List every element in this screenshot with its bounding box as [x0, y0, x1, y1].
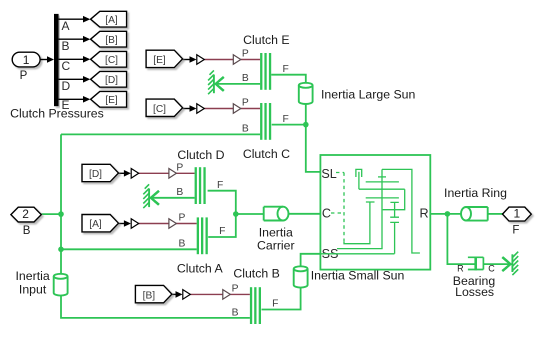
gear internal bottom links: [320, 249, 394, 254]
svg-text:P: P: [176, 163, 183, 174]
signal line from B to converter: [171, 291, 183, 298]
wire port2 to vertical bus: [41, 213, 61, 215]
svg-text:Losses: Losses: [455, 285, 494, 299]
svg-text:[A]: [A]: [105, 15, 118, 26]
PS line row B: [190, 293, 250, 295]
svg-text:1: 1: [23, 53, 30, 67]
wire left vertical bus: [60, 134, 62, 273]
from tag [B]: [135, 285, 172, 302]
svg-text:F: F: [219, 226, 225, 237]
svg-text:[B]: [B]: [143, 290, 156, 301]
goto tag [E]: [91, 91, 127, 107]
demux output line C: [59, 56, 91, 63]
svg-text:[D]: [D]: [105, 75, 118, 86]
clutch B: [250, 287, 261, 324]
from tag [E]: [146, 50, 183, 67]
signal line from E to converter: [183, 56, 197, 63]
inertia small sun: [294, 266, 308, 287]
PS line row D: [138, 172, 194, 174]
svg-text:D: D: [62, 79, 71, 93]
physical port 2 (B): [11, 207, 41, 222]
junction node R branch: [445, 211, 451, 217]
wire inertia carrier to C port: [289, 213, 321, 215]
demux output line A: [59, 16, 91, 23]
svg-text:A: A: [62, 19, 70, 33]
svg-text:C: C: [322, 207, 331, 221]
svg-text:F: F: [282, 64, 288, 75]
wire clutch C F line: [272, 124, 306, 126]
signal line from D to converter: [113, 170, 131, 177]
wire ground to clutch E B: [214, 83, 260, 85]
wire R junction to bearing losses: [447, 214, 475, 264]
wire inertia small sun to SS port: [301, 254, 321, 266]
svg-text:[A]: [A]: [89, 219, 102, 230]
wire clutch B F to inertia small sun: [262, 287, 301, 309]
PS line row E: [204, 59, 260, 61]
junction node port2: [58, 211, 64, 217]
svg-text:P: P: [20, 70, 28, 82]
svg-text:B: B: [242, 124, 249, 135]
wire R port to inertia ring: [430, 213, 461, 215]
svg-text:Clutch Pressures: Clutch Pressures: [10, 106, 104, 120]
wire clutch D F line: [208, 191, 236, 214]
bearing losses damper: [468, 257, 484, 271]
converter triangle B1: [183, 290, 191, 300]
gear internal left shaft: [344, 202, 375, 244]
PS line row C: [204, 108, 260, 110]
svg-text:2: 2: [22, 207, 29, 221]
svg-text:SL: SL: [321, 167, 336, 181]
demux bus selector bar: [54, 14, 59, 106]
goto tag [B]: [91, 31, 127, 47]
clutch C: [260, 103, 271, 140]
svg-text:Inertia Large Sun: Inertia Large Sun: [321, 87, 416, 101]
signal line port1 to demux: [40, 56, 54, 63]
planetary gear block: [320, 155, 430, 270]
inertia carrier: [264, 207, 289, 221]
converter triangle A1: [131, 219, 139, 229]
wire clutch A B line: [61, 248, 197, 250]
ground reference clutch E: [208, 70, 224, 94]
svg-text:Clutch E: Clutch E: [243, 33, 289, 47]
PS line row A: [138, 223, 196, 225]
junction node clutch A B: [58, 247, 64, 253]
converter triangle E1: [197, 55, 205, 65]
svg-text:F: F: [272, 299, 278, 310]
goto tag [D]: [91, 71, 127, 87]
converter triangle E2: [233, 55, 241, 65]
inertia large sun: [299, 83, 313, 104]
svg-text:C: C: [62, 59, 71, 73]
svg-text:[E]: [E]: [153, 55, 166, 66]
from tag [C]: [146, 99, 183, 116]
converter triangle C2: [233, 104, 241, 114]
svg-text:F: F: [217, 180, 223, 191]
inertia input: [54, 274, 68, 296]
svg-text:P: P: [178, 213, 185, 224]
physical port 1 (F): [503, 207, 532, 221]
svg-text:P: P: [232, 284, 239, 295]
svg-text:Carrier: Carrier: [257, 238, 295, 252]
signal line from C to converter: [183, 105, 197, 112]
svg-text:B: B: [242, 73, 249, 84]
input port 1 (P): [12, 52, 40, 67]
svg-text:B: B: [23, 225, 31, 237]
goto tag [A]: [91, 11, 127, 27]
svg-text:B: B: [62, 39, 70, 53]
demux output line D: [59, 76, 91, 83]
converter triangle D1: [131, 169, 139, 179]
svg-text:Clutch C: Clutch C: [243, 147, 290, 161]
converter triangle B2: [223, 290, 231, 300]
wire bearing losses to wall: [483, 263, 512, 265]
svg-text:Input: Input: [19, 283, 47, 297]
svg-text:F: F: [282, 114, 288, 125]
wire junction to inertia carrier: [236, 213, 264, 215]
svg-text:P: P: [242, 98, 249, 109]
clutch D: [195, 167, 206, 204]
wire inertia large sun to SL port: [306, 104, 321, 172]
converter triangle A2: [169, 219, 177, 229]
wire inertia ring to output port F: [488, 213, 503, 215]
svg-text:[C]: [C]: [153, 104, 166, 115]
converter triangle D2: [169, 169, 177, 179]
from tag [D]: [82, 164, 119, 181]
svg-text:R: R: [420, 207, 429, 221]
clutch E: [260, 53, 271, 90]
svg-text:Clutch B: Clutch B: [233, 267, 279, 281]
gear internal mid elbow: [383, 189, 405, 210]
svg-text:Inertia Ring: Inertia Ring: [444, 186, 507, 200]
wire clutch C B line: [61, 133, 260, 135]
gear internal gear mesh: [359, 169, 405, 248]
wire ground to clutch D B: [149, 197, 195, 199]
svg-text:B: B: [176, 187, 183, 198]
wire clutch A F line: [208, 214, 236, 237]
svg-text:Inertia: Inertia: [16, 269, 50, 283]
wire clutch E F to inertia large sun: [271, 75, 306, 83]
svg-text:P: P: [242, 49, 249, 60]
svg-text:1: 1: [514, 207, 521, 221]
svg-text:Clutch A: Clutch A: [177, 261, 224, 275]
svg-text:R: R: [457, 264, 464, 274]
demux output line B: [59, 36, 91, 43]
svg-text:B: B: [232, 308, 239, 319]
junction node large sun chain: [303, 122, 309, 128]
svg-text:Clutch D: Clutch D: [177, 148, 224, 162]
demux output line E: [59, 96, 91, 103]
svg-text:[E]: [E]: [105, 95, 118, 106]
svg-text:[C]: [C]: [105, 55, 118, 66]
svg-text:[B]: [B]: [105, 35, 118, 46]
junction node clutch D/A F: [233, 211, 239, 217]
wire inertia input to clutch B B line: [61, 296, 250, 318]
bearing losses ground wall: [502, 252, 518, 275]
converter triangle C1: [197, 104, 205, 114]
svg-text:Inertia Small Sun: Inertia Small Sun: [311, 269, 405, 283]
svg-text:B: B: [178, 239, 185, 250]
svg-text:Inertia: Inertia: [259, 225, 293, 239]
gear internal carrier dashed: [331, 173, 344, 243]
svg-text:[D]: [D]: [89, 169, 102, 180]
gear internal ring: [382, 169, 420, 253]
signal line from A to converter: [113, 220, 131, 227]
from tag [A]: [82, 215, 119, 232]
goto tag [C]: [91, 51, 127, 67]
ground reference clutch D: [143, 184, 159, 208]
svg-text:C: C: [488, 264, 495, 274]
gear internal right shaft: [390, 202, 399, 253]
gear internal hook: [356, 169, 362, 189]
inertia ring: [461, 207, 488, 221]
svg-text:F: F: [512, 224, 519, 236]
clutch A: [197, 217, 208, 254]
